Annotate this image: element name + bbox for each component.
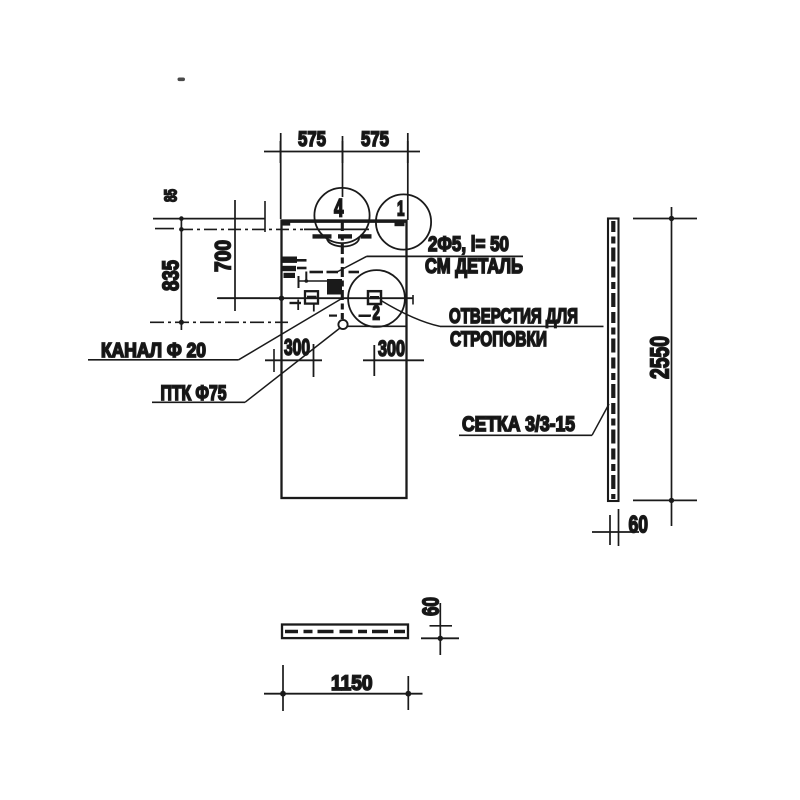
svg-text:2: 2 — [373, 302, 381, 325]
left edge bar 1 — [282, 257, 298, 263]
tick right x=408.3 — [407, 676, 409, 710]
bottom bar mesh dashed line — [285, 630, 405, 633]
svg-text:85: 85 — [161, 189, 181, 202]
svg-text:2Ф5, l= 50: 2Ф5, l= 50 — [428, 233, 509, 256]
leader curve from hole 2 — [381, 301, 440, 327]
300 right dimension — [363, 359, 424, 361]
tick top y=625.8 — [430, 625, 453, 627]
left vertical dimension line x=181.4 — [180, 217, 182, 330]
inner line y=229.4 (top anchor) — [304, 228, 369, 230]
1150 dimension line — [264, 693, 423, 695]
svg-text:2550: 2550 — [645, 336, 675, 379]
svg-text:575: 575 — [361, 128, 389, 151]
tick below left hole center — [313, 304, 315, 312]
detail circle 2 — [348, 270, 405, 327]
thin line y=281 — [298, 280, 330, 282]
junction dot at panel left edge — [279, 296, 284, 301]
svg-text:1: 1 — [397, 198, 405, 221]
short tick x=274 — [273, 349, 275, 372]
svg-text:4: 4 — [334, 195, 344, 223]
60 dimension (bottom bar right) — [439, 603, 441, 655]
black anchor block — [327, 279, 342, 295]
leader diagonal setka to side bar — [592, 404, 609, 435]
junction dot left — [280, 691, 286, 697]
extension line mid to circle 4 — [342, 136, 344, 197]
svg-text:60: 60 — [418, 597, 444, 616]
line y=326.3 from small circle to right edge — [348, 325, 407, 327]
tick bottom y=638.3 — [421, 637, 459, 639]
2550 bottom tick — [633, 499, 697, 501]
svg-text:СТРОПОВКИ: СТРОПОВКИ — [450, 328, 547, 351]
junction dot right — [405, 691, 411, 697]
svg-text:СМ ДЕТАЛЬ: СМ ДЕТАЛЬ — [425, 255, 523, 278]
svg-text:575: 575 — [298, 128, 326, 151]
leader underline 2F5 — [367, 255, 524, 257]
700 bottom tick — [217, 297, 260, 299]
bottom view bar (plan) — [282, 625, 408, 639]
svg-text:СЕТКА 3/3-15: СЕТКА 3/3-15 — [462, 413, 575, 436]
stray scan mark top-left — [178, 78, 186, 82]
detail circle 4 — [314, 188, 369, 243]
leader underline setka — [459, 434, 592, 436]
lifting loop arc below top — [327, 238, 359, 247]
corner tab right — [395, 221, 405, 227]
junction dot on y=281 — [305, 279, 309, 283]
tick left x=280.5 — [280, 141, 282, 163]
leader diagonal KANAL to center axis — [239, 298, 342, 359]
junction dot — [438, 636, 443, 641]
thick dashed band y=236 — [313, 234, 372, 238]
short vertical tick x=306.3 — [305, 272, 307, 283]
hole axis line y=298.2 — [218, 297, 414, 299]
svg-text:КАНАЛ Ф 20: КАНАЛ Ф 20 — [101, 340, 206, 362]
dash right of bar1 — [297, 259, 307, 262]
2550 top tick — [633, 218, 697, 220]
junction dot bottom — [669, 498, 674, 503]
dash-dot y=315.6 segments — [329, 315, 371, 317]
side view bar (right) — [608, 219, 619, 502]
tick left x=610 — [609, 515, 611, 545]
2550 dimension line — [671, 207, 673, 526]
svg-text:60: 60 — [629, 512, 649, 539]
dash left of digit 2 — [359, 315, 371, 317]
short vertical x=265 — [264, 201, 266, 232]
tick at hole center x=313.5 — [313, 344, 315, 377]
left lifting hole square — [305, 291, 318, 303]
700 dimension vertical line x=235 — [234, 200, 236, 311]
central vertical dashed axis — [341, 221, 344, 319]
dash-dot centerline y=229.4 to panel — [180, 228, 303, 230]
60 dimension (side bar bottom) — [592, 531, 639, 533]
leader underline otverstiya — [440, 325, 604, 327]
short line y=228.6 — [155, 228, 174, 230]
svg-text:835: 835 — [158, 260, 184, 291]
detail circle 1 — [376, 194, 431, 249]
small tick right of panel x=413 — [412, 295, 414, 305]
left projection line y=218.6 — [153, 218, 265, 220]
svg-text:300: 300 — [378, 336, 405, 361]
extension line right through circle 1 — [407, 133, 409, 220]
300 left dimension — [265, 359, 322, 361]
tick at hole center x=374.3 — [373, 345, 375, 376]
short vertical dash x=298.5 — [298, 276, 300, 288]
top dimension line (575/575) — [264, 151, 420, 153]
inner stripe of right hole — [370, 296, 379, 299]
tick right x=407.8 — [407, 141, 409, 163]
dash right of bar2 — [297, 267, 307, 270]
leader underline KANAL — [88, 359, 239, 361]
junction dot (181,218.6) — [179, 216, 184, 221]
left edge bar 2 — [282, 266, 297, 271]
tick mid x=342.5 — [342, 141, 344, 163]
corner tab left — [282, 221, 290, 226]
small circle (channel end) — [338, 320, 347, 329]
tick right x=618.5 — [618, 509, 620, 546]
junction dot (181,322.3) — [179, 320, 184, 325]
junction dot top — [669, 216, 674, 221]
main panel (front view) — [282, 221, 407, 499]
svg-text:ОТВЕРСТИЯ ДЛЯ: ОТВЕРСТИЯ ДЛЯ — [449, 305, 578, 328]
tick left x=283 — [282, 665, 284, 711]
svg-text:700: 700 — [211, 240, 236, 272]
right lifting hole square (in circle 2) — [368, 291, 381, 304]
marks below left hole: horizontal dash — [290, 302, 302, 304]
dashed line y=272 — [310, 271, 360, 274]
svg-text:1150: 1150 — [331, 672, 373, 695]
leader diagonal 2F5 — [336, 256, 367, 272]
inner stripe of left hole — [307, 296, 317, 299]
junction dot (181,229.4) — [179, 227, 184, 232]
left edge bar 3 — [284, 273, 296, 278]
svg-text:300: 300 — [284, 334, 310, 360]
dash-dot hole axis y=322.3 left of panel — [150, 321, 288, 323]
side bar mesh dashed line — [611, 221, 615, 499]
leader diagonal PTK to small circle — [245, 328, 340, 402]
leader underline PTK — [152, 401, 245, 403]
panel top edge thick stroke — [282, 220, 407, 223]
marks below left hole: vertical — [297, 300, 299, 311]
extension line left to panel corner — [280, 133, 282, 219]
